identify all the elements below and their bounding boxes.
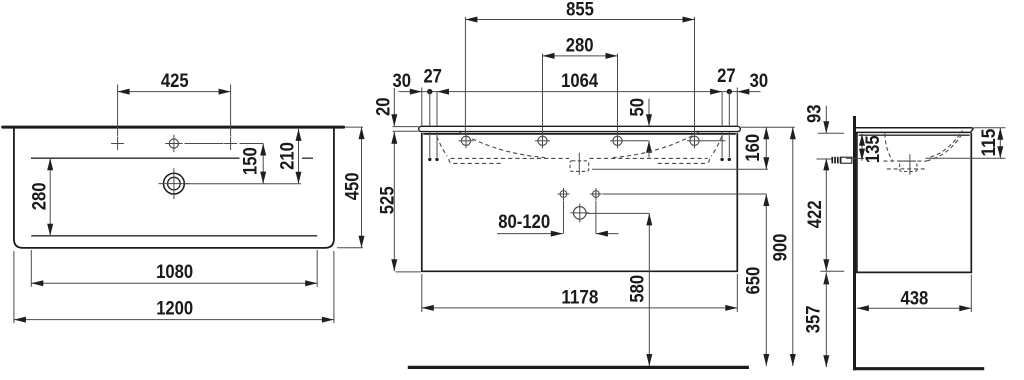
hole line A lower segment — [429, 132, 431, 157]
side drain centre line — [909, 154, 911, 175]
basin hidden bottom band upper line left — [451, 157, 570, 159]
overflow hole centre line to dim 210 — [185, 183, 302, 185]
svg-text:1178: 1178 — [561, 288, 598, 309]
dim 50 lower arrow — [648, 141, 650, 158]
floor line under cabinet — [408, 366, 749, 369]
dim 425 extension line left — [117, 85, 119, 137]
centre line from marker 4 — [702, 140, 726, 142]
inner basin rear line (right segment) — [302, 157, 313, 159]
side view cabinet outline — [857, 133, 971, 272]
dim 525 bottom extension line — [396, 271, 421, 273]
dimension 357 — [825, 272, 827, 367]
hole line C lower segment — [721, 132, 723, 157]
dim 1178 extension right — [736, 274, 738, 312]
dimension 280 front view — [543, 55, 618, 57]
basin hidden outline: right sweep curve — [613, 132, 699, 157]
siphon hole marker left — [560, 191, 567, 198]
cabinet left edge extension above rim — [421, 88, 423, 127]
dim 93 upper arrow — [825, 106, 827, 134]
fixation hole marker 3 — [613, 136, 622, 145]
svg-text:280: 280 — [566, 36, 594, 57]
washbasin top-view: ceramic top edge bar — [1, 126, 345, 129]
dim 1200 extension left — [13, 251, 15, 323]
dim 50 upper arrow — [648, 99, 650, 127]
siphon centre line to dim 650 — [603, 193, 767, 195]
fixation hole marker 4 — [690, 136, 699, 145]
svg-text:160: 160 — [743, 134, 764, 162]
chain dot right — [727, 89, 732, 94]
dim 1200 extension right — [333, 251, 335, 323]
tap hole centre line (right segment) — [240, 143, 264, 145]
svg-text:27: 27 — [423, 67, 442, 88]
cabinet right edge extension above rim — [736, 88, 738, 127]
svg-text:422: 422 — [805, 200, 826, 228]
dimension 280 left view — [49, 158, 51, 236]
svg-text:525: 525 — [378, 186, 399, 214]
dim 1080 extension left — [30, 250, 32, 287]
svg-text:438: 438 — [901, 288, 929, 309]
side view cabinet top edge — [859, 134, 970, 136]
svg-text:280: 280 — [29, 183, 50, 211]
hole line B lower segment — [436, 132, 438, 157]
inner basin front line — [31, 235, 317, 237]
svg-text:1064: 1064 — [561, 71, 598, 92]
side view washbasin slab — [856, 128, 973, 133]
dimension 580 — [648, 213, 650, 366]
hole dot B — [435, 158, 438, 161]
side bowl hidden outline: right rise outer — [927, 134, 962, 161]
dim 422/357 tick line — [820, 270, 844, 272]
svg-text:150: 150 — [241, 147, 262, 175]
rim top extension line for dim 20 — [393, 126, 419, 128]
inner basin rear line (left segment) — [31, 157, 240, 159]
svg-text:425: 425 — [161, 71, 189, 92]
wall line — [853, 116, 856, 370]
dim 160/900 top extension line — [741, 126, 795, 128]
dimension 450 — [361, 127, 363, 248]
washbasin top-view: body outline with rounded bottom corners — [14, 129, 334, 248]
tap hole centre line (left segment) — [185, 143, 224, 145]
svg-text:580: 580 — [627, 275, 648, 303]
dimension 422 (up arrow shared with dim 93) — [825, 158, 827, 271]
dim 450 bottom extension line — [337, 247, 363, 249]
svg-text:855: 855 — [566, 0, 594, 21]
svg-text:50: 50 — [627, 98, 648, 117]
hole line D lower segment — [728, 132, 730, 157]
dimension 525 (with up arrow serving dim 20) — [393, 132, 395, 271]
svg-text:80-120: 80-120 — [498, 212, 550, 233]
svg-text:1200: 1200 — [156, 299, 193, 320]
svg-text:357: 357 — [804, 305, 825, 333]
water connection centre line right of wall — [846, 157, 864, 159]
basin hidden bottom band lower line right — [657, 159, 710, 164]
side drain hidden box — [900, 161, 917, 171]
dim 1080 extension right — [316, 250, 318, 287]
dimension 115 — [999, 128, 1001, 159]
dimension 150 — [262, 144, 264, 184]
dimension 210 — [298, 129, 300, 184]
dimension 1200 — [14, 319, 334, 321]
svg-text:93: 93 — [805, 105, 826, 124]
chain dot left — [427, 89, 432, 94]
dimension 425 — [118, 91, 231, 93]
overflow hole inner circle — [168, 177, 181, 190]
svg-text:27: 27 — [717, 66, 736, 87]
dim 280 extension right — [617, 54, 619, 134]
hole line B upper segment — [436, 92, 438, 127]
dim 438 extension right — [970, 275, 972, 313]
fixation hole marker 1 — [461, 136, 470, 145]
hole dot A — [428, 158, 431, 161]
basin hidden bottom band lower line left — [449, 159, 502, 164]
siphon hole left extension down — [563, 201, 565, 234]
drain recess hidden box — [570, 161, 589, 172]
svg-text:1080: 1080 — [156, 262, 193, 283]
svg-text:30: 30 — [393, 71, 412, 92]
dim 160 bottom extension line — [592, 168, 768, 170]
basin hidden outline: right corner dash — [711, 136, 722, 156]
dimension 855 — [465, 19, 694, 21]
tap hole symbol — [169, 139, 178, 148]
dim 425 extension line right — [230, 85, 232, 137]
svg-text:30: 30 — [750, 71, 769, 92]
chain arrow at right cabinet edge — [737, 89, 749, 95]
drain centre line — [578, 153, 580, 175]
hole line D upper segment — [728, 92, 730, 127]
svg-text:900: 900 — [770, 234, 791, 262]
hole line A upper segment — [429, 92, 431, 127]
hole line C upper segment — [721, 92, 723, 127]
top chain dimension line 30-27-1064-27-30 — [399, 91, 761, 93]
chain arrow at left cabinet edge — [410, 89, 422, 95]
dimension 438 — [857, 307, 971, 309]
dim 93 tick line (top of cabinet plane) — [818, 132, 844, 134]
siphon hole right extension down — [595, 201, 597, 234]
tap hole position cross left — [111, 143, 124, 145]
floor line side view — [853, 367, 984, 370]
side bowl hidden outline: right rise inner — [931, 131, 963, 158]
svg-text:650: 650 — [743, 267, 764, 295]
dimension 650 — [765, 194, 767, 366]
drain outlet line to dim 580 — [587, 212, 650, 214]
dim 855 extension right — [694, 17, 696, 134]
basin hidden bottom band upper line right — [590, 157, 708, 159]
front view: washbasin rim bar — [419, 126, 741, 131]
svg-text:20: 20 — [373, 98, 394, 117]
dim 855 extension left — [464, 17, 466, 134]
chain arrow left 1064 — [437, 89, 449, 95]
side bowl hidden bottom upper line — [883, 160, 927, 162]
dim 280 extension left — [542, 54, 544, 134]
basin hidden outline: left sweep curve — [460, 132, 546, 157]
dim 80-120 right arrow — [596, 233, 619, 235]
rim bottom extension line for dim 20 — [393, 130, 419, 132]
dim 80-120 left arrow — [497, 233, 563, 235]
basin hidden outline: left corner dash — [437, 136, 448, 156]
chain arrow right 1064 — [710, 89, 722, 95]
water connection centre line — [817, 158, 832, 160]
svg-text:450: 450 — [343, 173, 364, 201]
water connection symbol (threaded fitting) — [841, 157, 852, 163]
dim 115 top extension line — [974, 127, 1006, 129]
tap hole position cross right — [224, 143, 237, 145]
tap centre line right segment — [925, 157, 1005, 159]
dimension 1080 — [31, 282, 317, 284]
svg-text:115: 115 — [979, 128, 1000, 156]
svg-text:210: 210 — [277, 142, 298, 170]
overflow hole outer circle — [164, 173, 185, 194]
hole dot D — [728, 158, 731, 161]
dimension 1178 — [422, 307, 738, 309]
dim 1178 extension left — [421, 274, 423, 312]
side bowl hidden bottom lower line — [887, 168, 926, 170]
side bowl hidden outline: left descent — [885, 134, 893, 162]
centre line from marker 3 to dim 50 — [625, 140, 649, 142]
dimension 135 — [861, 134, 863, 161]
siphon hole marker right — [593, 191, 600, 198]
fixation hole marker 2 — [538, 136, 547, 145]
front view: cabinet outline — [422, 133, 738, 271]
dimension 160 — [765, 127, 767, 169]
svg-text:135: 135 — [863, 135, 884, 163]
dim 20 upper arrow — [393, 88, 395, 126]
drain outlet marker — [574, 207, 587, 220]
dim 450 top extension line — [346, 126, 364, 128]
hole dot C — [720, 158, 723, 161]
dimension 900 — [792, 127, 794, 366]
overflow hole cross lines — [159, 183, 190, 185]
